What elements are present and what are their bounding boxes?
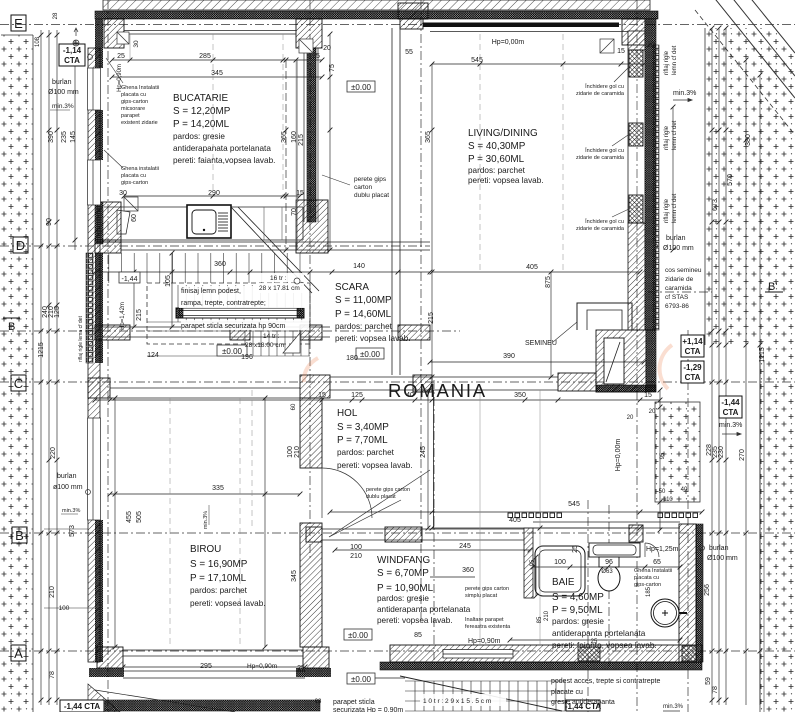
svg-text:40: 40: [681, 487, 688, 493]
svg-text:dublu placat: dublu placat: [366, 494, 396, 500]
svg-text:dublu placat: dublu placat: [354, 192, 389, 199]
svg-text:505: 505: [136, 511, 143, 523]
svg-text:pereti: faianta,vopsea lavab.: pereti: faianta,vopsea lavab.: [173, 156, 275, 165]
svg-text:108: 108: [35, 36, 41, 47]
svg-text:360: 360: [214, 261, 226, 268]
svg-text:pereti: vopsea lavab.: pereti: vopsea lavab.: [468, 176, 544, 185]
svg-text:220: 220: [50, 447, 57, 459]
svg-text:zidarie de caramida: zidarie de caramida: [576, 91, 625, 97]
svg-text:245: 245: [420, 446, 427, 458]
svg-text:140: 140: [353, 263, 365, 270]
svg-text:380: 380: [745, 134, 752, 146]
svg-text:parapet: parapet: [121, 113, 140, 119]
svg-text:S = 40,30MP: S = 40,30MP: [468, 141, 526, 152]
svg-text:CTA: CTA: [685, 347, 701, 356]
svg-text:875: 875: [545, 276, 552, 288]
svg-text:215: 215: [136, 309, 143, 321]
svg-text:85: 85: [414, 632, 422, 639]
svg-text:345: 345: [211, 70, 223, 77]
svg-text:Hp=0,90m: Hp=0,90m: [468, 638, 501, 645]
svg-text:235: 235: [61, 131, 68, 143]
svg-text:riflaj rigle: riflaj rigle: [664, 50, 670, 75]
svg-text:caramida: caramida: [665, 285, 692, 292]
svg-text:25: 25: [297, 665, 305, 672]
svg-text:75: 75: [329, 64, 336, 72]
svg-text:70: 70: [291, 208, 298, 216]
svg-text:E: E: [14, 16, 23, 31]
svg-text:gips-carton: gips-carton: [634, 582, 661, 588]
svg-text:BUCATARIE: BUCATARIE: [173, 93, 228, 104]
svg-text:min.3%: min.3%: [673, 90, 696, 97]
svg-text:20: 20: [323, 45, 331, 52]
svg-text:455: 455: [126, 511, 133, 523]
svg-text:antiderapanta portelanata: antiderapanta portelanata: [377, 605, 471, 614]
svg-text:P = 9,50ML: P = 9,50ML: [552, 605, 603, 616]
svg-text:-1,44: -1,44: [122, 276, 138, 283]
svg-text:A: A: [14, 646, 23, 661]
svg-text:riflaj rigle: riflaj rigle: [664, 125, 670, 150]
svg-text:545: 545: [471, 57, 483, 64]
svg-text:405: 405: [509, 517, 521, 524]
svg-text:BAIE: BAIE: [552, 577, 575, 588]
svg-text:85: 85: [537, 616, 543, 623]
svg-text:Ghena instalatii: Ghena instalatii: [121, 166, 159, 172]
svg-text:290: 290: [208, 190, 220, 197]
svg-text:Hp=1,25m: Hp=1,25m: [646, 546, 679, 553]
svg-text:carton: carton: [354, 184, 372, 191]
svg-text:S = 6,70MP: S = 6,70MP: [377, 568, 429, 579]
svg-text:256: 256: [704, 584, 711, 596]
svg-text:S = 4,60MP: S = 4,60MP: [552, 592, 604, 603]
svg-text:ø100 mm: ø100 mm: [53, 484, 83, 491]
svg-text:min.3%: min.3%: [62, 508, 80, 514]
svg-text:fereastra existenta: fereastra existenta: [465, 624, 511, 630]
svg-text:-1,44 CTA: -1,44 CTA: [64, 702, 101, 711]
svg-text:345: 345: [291, 570, 298, 582]
svg-text:100: 100: [350, 544, 362, 551]
svg-text:124: 124: [147, 352, 159, 359]
svg-text:90: 90: [46, 218, 53, 226]
svg-text:16 tr :: 16 tr :: [270, 275, 287, 282]
svg-text:gips-carton: gips-carton: [121, 99, 148, 105]
svg-text:Hp=1,42m: Hp=1,42m: [120, 302, 126, 330]
svg-text:B: B: [15, 528, 24, 543]
svg-text:min.3%: min.3%: [663, 704, 684, 710]
svg-text:±0.00: ±0.00: [351, 675, 372, 684]
svg-text:25: 25: [117, 53, 125, 60]
svg-text:78: 78: [712, 686, 719, 694]
svg-text:lemn cf det: lemn cf det: [672, 193, 678, 223]
svg-text:pereti: vopsea lavab.: pereti: vopsea lavab.: [190, 599, 266, 608]
svg-text:BIROU: BIROU: [190, 544, 221, 555]
svg-text:Închidere gol cu: Închidere gol cu: [584, 83, 624, 90]
svg-text:95: 95: [530, 559, 536, 566]
svg-text:210: 210: [350, 553, 362, 560]
svg-text:Ghena Instalatii: Ghena Instalatii: [121, 85, 159, 91]
svg-text:pardos: gresie: pardos: gresie: [377, 594, 429, 603]
svg-text:Ghena Instalatii: Ghena Instalatii: [634, 568, 672, 574]
svg-text:placate cu: placate cu: [551, 689, 583, 696]
svg-text:20: 20: [627, 415, 634, 421]
svg-text:15: 15: [296, 190, 304, 197]
svg-text:pardos: parchet: pardos: parchet: [190, 586, 248, 595]
svg-text:210: 210: [49, 586, 56, 598]
svg-text:-1,14: -1,14: [63, 46, 82, 55]
svg-text:65: 65: [653, 559, 661, 566]
svg-text:365: 365: [425, 131, 432, 143]
svg-text:Închidere gol cu: Închidere gol cu: [584, 218, 624, 225]
svg-text:100: 100: [287, 446, 294, 458]
svg-text:zidarie de caramida: zidarie de caramida: [576, 155, 625, 161]
svg-text:210: 210: [294, 446, 301, 458]
svg-text:cf STAS: cf STAS: [665, 294, 689, 301]
svg-text:existent zidarie: existent zidarie: [121, 120, 158, 126]
svg-text:Ø100 mm: Ø100 mm: [663, 245, 694, 252]
svg-text:28: 28: [53, 12, 59, 19]
svg-text:100: 100: [554, 559, 566, 566]
svg-text:110: 110: [663, 497, 673, 503]
svg-text:lemn cf det: lemn cf det: [672, 120, 678, 150]
svg-text:burlan: burlan: [52, 79, 72, 86]
svg-text:±0.00: ±0.00: [360, 350, 381, 359]
svg-text:15: 15: [318, 392, 326, 399]
svg-text:210: 210: [544, 610, 550, 621]
svg-text:pereti: vopsea lavab.: pereti: vopsea lavab.: [377, 616, 453, 625]
svg-text:20: 20: [647, 42, 655, 49]
svg-text:rampa, trepte, contratrepte;: rampa, trepte, contratrepte;: [181, 300, 266, 307]
svg-text:parapet sticla: parapet sticla: [333, 699, 375, 706]
svg-text:50: 50: [659, 489, 666, 495]
svg-text:HOL: HOL: [337, 408, 358, 419]
svg-text:simplu placat: simplu placat: [465, 593, 498, 599]
svg-text:CTA: CTA: [685, 373, 701, 382]
svg-text:CTA: CTA: [64, 56, 80, 65]
svg-text:55: 55: [405, 49, 413, 56]
svg-text:pardos: parchet: pardos: parchet: [335, 322, 393, 331]
svg-text:20: 20: [649, 409, 656, 415]
svg-text:SCARA: SCARA: [335, 282, 369, 293]
svg-text:245: 245: [459, 543, 471, 550]
svg-text:Ø100 mm: Ø100 mm: [48, 89, 79, 96]
svg-text:S = 12,20MP: S = 12,20MP: [173, 106, 231, 117]
svg-text:±0.00: ±0.00: [348, 631, 369, 640]
svg-text:gresie antiderapanta: gresie antiderapanta: [551, 699, 615, 706]
svg-text:podest acces, trepte si contra: podest acces, trepte si contratrepte: [551, 678, 660, 685]
svg-text:B: B: [8, 321, 15, 333]
svg-text:placata cu: placata cu: [121, 92, 146, 98]
svg-text:perete gips carton: perete gips carton: [366, 487, 410, 493]
svg-text:Hp=0,90m: Hp=0,90m: [247, 663, 277, 670]
svg-text:215: 215: [428, 312, 435, 324]
svg-text:95: 95: [660, 452, 666, 459]
svg-text:finisaj lemn podest,: finisaj lemn podest,: [181, 288, 241, 295]
svg-text:105: 105: [165, 275, 172, 287]
svg-text:C: C: [14, 376, 23, 391]
svg-text:+1,14: +1,14: [682, 337, 703, 346]
svg-text:6793-86: 6793-86: [665, 303, 689, 310]
svg-text:100: 100: [59, 605, 70, 612]
svg-text:burlan: burlan: [666, 235, 686, 242]
svg-text:30: 30: [133, 40, 140, 48]
svg-text:perete gips: perete gips: [354, 176, 387, 183]
svg-text:±0.00: ±0.00: [351, 83, 372, 92]
svg-text:riflaj rigle lemn cf det: riflaj rigle lemn cf det: [78, 316, 84, 362]
svg-text:perete gips carton: perete gips carton: [465, 586, 509, 592]
svg-text:15: 15: [617, 48, 625, 55]
svg-text:ROMANIA: ROMANIA: [388, 380, 487, 401]
svg-text:125: 125: [54, 306, 61, 318]
svg-text:59: 59: [705, 677, 712, 685]
svg-text:14 tr :: 14 tr :: [263, 333, 280, 340]
svg-text:placata cu: placata cu: [121, 173, 146, 179]
svg-text:60: 60: [131, 214, 138, 222]
svg-text:-1,29: -1,29: [683, 363, 702, 372]
svg-text:zidarie de: zidarie de: [665, 276, 694, 283]
svg-text:SEMINEU: SEMINEU: [525, 340, 557, 347]
svg-text:285: 285: [199, 53, 211, 60]
svg-text:230: 230: [718, 446, 725, 458]
svg-text:25: 25: [572, 545, 579, 553]
svg-text:30: 30: [119, 190, 127, 197]
svg-text:cos semineu: cos semineu: [665, 267, 702, 274]
svg-text:burlan: burlan: [57, 473, 77, 480]
svg-text:28: 28: [315, 699, 322, 705]
svg-text:390: 390: [503, 353, 515, 360]
svg-text:Inaltare parapet: Inaltare parapet: [465, 617, 504, 623]
svg-text:145: 145: [70, 131, 77, 143]
svg-text:D: D: [16, 238, 25, 253]
svg-text:P = 7,70ML: P = 7,70ML: [337, 435, 388, 446]
svg-text:lemn cf det: lemn cf det: [672, 45, 678, 75]
svg-text:78: 78: [49, 671, 56, 679]
svg-text:Închidere gol cu: Închidere gol cu: [584, 147, 624, 154]
svg-text:390: 390: [48, 131, 55, 143]
svg-text:Hp=0,00m: Hp=0,00m: [615, 439, 622, 472]
svg-text:min.3%: min.3%: [203, 511, 209, 529]
svg-text:min.3%: min.3%: [719, 422, 742, 429]
svg-text:Ø100 mm: Ø100 mm: [707, 555, 738, 562]
svg-text:P = 17,10ML: P = 17,10ML: [190, 573, 247, 584]
svg-text:25: 25: [591, 639, 598, 645]
svg-text:burlan: burlan: [709, 545, 729, 552]
svg-text:270: 270: [739, 449, 746, 461]
svg-text:antiderapanta portelanata: antiderapanta portelanata: [552, 629, 646, 638]
svg-text:pereti: faianta, vopsea lavab.: pereti: faianta, vopsea lavab.: [552, 641, 657, 650]
svg-text:405: 405: [526, 264, 538, 271]
svg-text:125: 125: [351, 392, 363, 399]
svg-text:28 x 17.81 cm: 28 x 17.81 cm: [259, 285, 300, 292]
svg-text:Hp=0,00m: Hp=0,00m: [492, 39, 525, 46]
svg-text:pardos: gresie: pardos: gresie: [173, 132, 225, 141]
svg-text:570: 570: [727, 174, 734, 186]
svg-text:196: 196: [241, 354, 253, 361]
svg-text:28 x18.00 cm: 28 x18.00 cm: [245, 342, 284, 349]
svg-text:S = 11,00MP: S = 11,00MP: [335, 295, 392, 306]
svg-text:antiderapanata portelanata: antiderapanata portelanata: [173, 144, 271, 153]
svg-text:573: 573: [69, 525, 76, 537]
svg-text:Ø63: Ø63: [601, 569, 613, 575]
svg-text:placata cu: placata cu: [634, 575, 659, 581]
svg-text:pardos: parchet: pardos: parchet: [337, 448, 395, 457]
svg-text:micsorare: micsorare: [121, 106, 145, 112]
svg-text:B': B': [768, 281, 777, 293]
svg-text:pardos: parchet: pardos: parchet: [468, 166, 526, 175]
svg-text:35: 35: [312, 53, 320, 60]
svg-text:1215: 1215: [38, 342, 45, 358]
svg-text:S = 3,40MP: S = 3,40MP: [337, 422, 389, 433]
svg-text:545: 545: [568, 501, 580, 508]
svg-text:1 0 t r : 2 9 x 1 5 . 5 c: 1 0 t r : 2 9 x 1 5 . 5 c m: [423, 698, 491, 705]
svg-text:pereti: vopsea lavab.: pereti: vopsea lavab.: [335, 334, 411, 343]
svg-text:CTA: CTA: [723, 408, 739, 417]
svg-text:pereti: vopsea lavab.: pereti: vopsea lavab.: [337, 461, 413, 470]
svg-text:P = 30,60ML: P = 30,60ML: [468, 154, 525, 165]
svg-text:215: 215: [298, 134, 305, 146]
svg-text:P = 14,20ML: P = 14,20ML: [173, 119, 230, 130]
svg-text:-1,44: -1,44: [721, 398, 740, 407]
svg-text:160: 160: [291, 131, 298, 143]
svg-text:pardos: gresie: pardos: gresie: [552, 617, 604, 626]
svg-text:gips-carton: gips-carton: [121, 180, 148, 186]
svg-text:P = 14,60ML: P = 14,60ML: [335, 309, 392, 320]
svg-text:60: 60: [291, 403, 297, 410]
svg-text:350: 350: [514, 392, 526, 399]
svg-text:zidarie de caramida: zidarie de caramida: [576, 226, 625, 232]
svg-text:295: 295: [200, 663, 212, 670]
svg-text:±0.00: ±0.00: [222, 347, 243, 356]
svg-text:S = 16,90MP: S = 16,90MP: [190, 559, 248, 570]
svg-text:335: 335: [212, 485, 224, 492]
svg-text:parapet sticla securizata hp 9: parapet sticla securizata hp 90cm: [181, 323, 285, 330]
svg-text:P = 10,90ML: P = 10,90ML: [377, 583, 434, 594]
svg-text:securizata Hp = 0,90m: securizata Hp = 0,90m: [333, 707, 403, 712]
svg-text:WINDFANG: WINDFANG: [377, 555, 430, 566]
svg-text:LIVING/DINING: LIVING/DINING: [468, 128, 538, 139]
svg-text:360: 360: [462, 567, 474, 574]
svg-text:min.3%: min.3%: [52, 103, 74, 110]
svg-text:96: 96: [605, 559, 613, 566]
svg-text:180: 180: [346, 355, 358, 362]
svg-text:365: 365: [281, 131, 288, 143]
svg-text:1215: 1215: [759, 347, 766, 363]
svg-text:673: 673: [712, 199, 719, 211]
svg-text:riflaj rigle: riflaj rigle: [664, 198, 670, 223]
svg-text:15: 15: [644, 392, 652, 399]
